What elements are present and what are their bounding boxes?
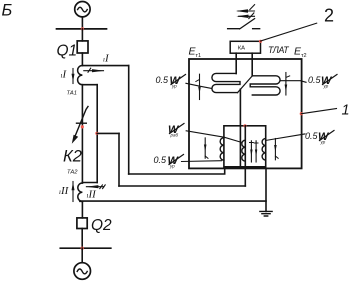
generator G1 (top) — [75, 2, 90, 17]
winding w-left on core left limb — [220, 138, 224, 161]
svg-text:0.5: 0.5 — [156, 75, 170, 85]
arrow inner pair 2 — [255, 141, 257, 162]
wire vertical x=119 down — [118, 133, 120, 186]
wire long y2 (from x=119) to middle winding — [119, 185, 245, 187]
winding w-middle on core — [242, 140, 246, 161]
current transformer TA2 — [78, 183, 83, 201]
node dot KA top-right — [259, 40, 262, 43]
svg-text:0.5: 0.5 — [154, 155, 168, 165]
label 0.5W left top — [156, 75, 182, 89]
arrow left of core — [204, 138, 206, 158]
arrow inner pair 1 — [250, 141, 252, 162]
wire ground lead — [265, 168, 267, 211]
breaker Q2 — [77, 218, 87, 229]
ground — [260, 211, 272, 216]
generator G2 (bottom) — [74, 263, 91, 280]
busbar bottom — [60, 247, 111, 249]
svg-text:КА: КА — [238, 46, 245, 52]
winding w-right on core right limb — [262, 138, 266, 160]
terminal stub right 0.5W — [281, 81, 306, 83]
node bus junction (dot) — [81, 27, 84, 30]
wire TA1 lower secondary to right — [82, 84, 97, 86]
wire vertical x=97.2 down — [96, 85, 98, 183]
winding W2 (right primary, two loops) — [250, 76, 280, 95]
fault K2 arrow — [74, 107, 89, 141]
terminal stub left 0.5W — [186, 83, 211, 88]
busbar top — [57, 28, 107, 30]
arrow on left stub — [199, 74, 201, 99]
svg-text:1: 1 — [342, 103, 350, 119]
wire bus to generator G2 — [81, 248, 83, 263]
wire Q2 to bottom bus — [81, 229, 83, 249]
wire TA2 upper secondary right — [82, 182, 97, 184]
wire TA2 lower secondary to ground vertical — [80, 200, 266, 202]
wire vertical B through core — [244, 126, 246, 186]
label 0.5W (right mid) with pointer — [305, 131, 330, 145]
wire KA leg right — [251, 53, 253, 76]
svg-text:К2: К2 — [63, 148, 82, 166]
node dot on box right edge — [300, 112, 303, 115]
svg-text:ТА1: ТА1 — [67, 91, 77, 97]
wire cross diagonal W1-W2 — [238, 76, 253, 93]
trip output arrow 1 — [238, 10, 255, 12]
contact of KA (to trip) — [228, 19, 260, 29]
wire middle vertical from diagonal down — [239, 89, 241, 167]
wire generator G1 to bus — [81, 17, 83, 29]
wire vertical x=128.7 down — [128, 66, 130, 174]
arrow on right stub — [285, 73, 287, 96]
wire Q1 to TA1 — [81, 53, 83, 66]
node fault dot on line — [81, 125, 84, 128]
trip output arrow 2 — [239, 15, 255, 17]
svg-text:ıII: ıII — [59, 185, 70, 197]
breaker Q1 — [77, 41, 88, 53]
node dot inner box top — [243, 124, 246, 127]
wire junction to corner — [97, 132, 119, 134]
wire TA1 upper secondary to right — [82, 65, 128, 67]
core box (inner) — [224, 126, 266, 167]
svg-text:Б: Б — [2, 2, 13, 20]
current transformer TA1 — [78, 66, 83, 85]
svg-text:ТА2: ТА2 — [67, 170, 78, 176]
winding W1 (left primary, two loops) — [212, 73, 240, 92]
svg-text:0.5: 0.5 — [308, 75, 322, 85]
arrow primary current up at TA2 — [72, 182, 74, 202]
svg-text:ТЛАТ: ТЛАТ — [268, 45, 289, 55]
wire main line TA1 to K2 — [81, 85, 83, 183]
label 0.5W (bottom left) with pointer — [154, 155, 180, 169]
pointer line to label 2 — [261, 23, 317, 41]
label 0.5W right top — [308, 75, 333, 89]
arrow secondary current left at TA2 — [86, 186, 103, 188]
pointer line to label 1 — [301, 109, 336, 114]
svg-text:2: 2 — [324, 6, 334, 26]
node junction dot (97,133) — [95, 132, 98, 135]
arrow primary current down at TA1 — [72, 69, 74, 84]
svg-text:Q2: Q2 — [91, 217, 112, 234]
svg-text:ıII: ıII — [87, 189, 98, 201]
wire bus to Q1 — [81, 29, 83, 41]
arrow right of core — [274, 139, 276, 160]
node bottom bus junction (dot) — [81, 247, 84, 250]
wire KA leg left — [235, 53, 237, 73]
svg-text:Q1: Q1 — [57, 43, 78, 60]
wire main line TA2 to Q2 — [81, 201, 83, 218]
label W (middle left) with pointer — [168, 124, 180, 138]
wire long y1 (from x=128.7) to relay box — [129, 167, 225, 174]
arrow secondary current right at TA1 — [84, 70, 104, 72]
relay KA box — [230, 41, 260, 53]
relay box (outer) — [189, 59, 302, 168]
svg-text:0.5: 0.5 — [305, 131, 319, 141]
